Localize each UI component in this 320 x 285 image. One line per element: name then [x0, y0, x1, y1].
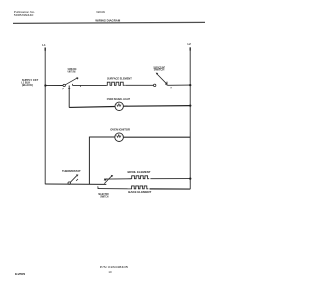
switch right surface unit sw.	[154, 73, 173, 90]
wire bake terminal tick	[97, 186, 99, 188]
svg-text:WIRING DIAGRAM: WIRING DIAGRAM	[95, 18, 120, 22]
wire broil row left	[104, 178, 131, 180]
wire drop from switch to signal row	[68, 86, 70, 108]
svg-text:5995399440: 5995399440	[14, 13, 34, 17]
wire row1 element to right switch	[125, 84, 153, 86]
resistor broil element	[131, 176, 149, 179]
svg-text:OVEN IGNITOR: OVEN IGNITOR	[110, 128, 131, 132]
wire bake row left	[98, 188, 131, 190]
svg-text:UNIT SW.: UNIT SW.	[68, 70, 76, 74]
wire signal row right to L2	[123, 105, 190, 108]
wire thermostat row	[45, 183, 106, 185]
wire row1 switch to element	[73, 84, 107, 86]
svg-text:SWITCH: SWITCH	[100, 194, 108, 198]
node junction dot row1/L2	[189, 84, 191, 86]
wire ignitor row right to L2	[123, 136, 190, 138]
wire right bus top stub	[189, 47, 191, 50]
wire right bus L2	[189, 47, 191, 189]
resistor surface element	[107, 82, 125, 85]
wire ignitor row corner horizontal	[89, 136, 115, 138]
wire left bus top stub	[44, 48, 46, 51]
wire left bus L1	[44, 48, 46, 185]
lamp oven signal light	[115, 102, 123, 110]
svg-text:OVEN SIGNAL LIGHT: OVEN SIGNAL LIGHT	[107, 97, 130, 101]
svg-text:10: 10	[108, 270, 112, 274]
switch thermostat	[68, 174, 79, 184]
label surface unit sw. (right)	[153, 65, 165, 71]
switch selector arm	[104, 175, 114, 184]
svg-text:SURFACE ELEMENT: SURFACE ELEMENT	[107, 77, 132, 81]
switch left surface unit sw.	[63, 77, 82, 90]
header publication text	[14, 10, 35, 17]
label supply cord	[21, 78, 38, 87]
svg-text:SWITCH: SWITCH	[154, 68, 165, 72]
node junction dot broil/L2	[189, 178, 191, 180]
wire tick on drop	[68, 88, 70, 90]
wire ignitor drop vertical	[88, 137, 90, 185]
wire row1 right switch to L2	[167, 84, 190, 86]
svg-text:(BLACK): (BLACK)	[22, 83, 33, 87]
resistor bake element	[131, 186, 148, 189]
wire bake row right to L2	[150, 188, 191, 190]
node junction dot row1/L1	[44, 84, 46, 86]
svg-text:MEF311BA: MEF311BA	[96, 10, 105, 14]
label selector switch	[98, 192, 108, 199]
svg-text:E25B: E25B	[15, 272, 26, 276]
label surface unit sw. (left)	[68, 67, 77, 74]
svg-text:BROIL ELEMENT: BROIL ELEMENT	[128, 170, 151, 174]
svg-text:P/N 316048405: P/N 316048405	[100, 265, 129, 269]
wire row1 from L1 to switch	[45, 85, 63, 87]
header rule	[13, 22, 205, 23]
ignitor oven ignitor	[115, 133, 124, 142]
svg-text:THERMOSTAT: THERMOSTAT	[62, 169, 81, 173]
wire broil row right to L2	[150, 178, 190, 180]
svg-text:BAKE ELEMENT: BAKE ELEMENT	[128, 190, 151, 194]
wire signal row left	[69, 106, 115, 109]
node junction dot signal/L2	[189, 104, 191, 106]
